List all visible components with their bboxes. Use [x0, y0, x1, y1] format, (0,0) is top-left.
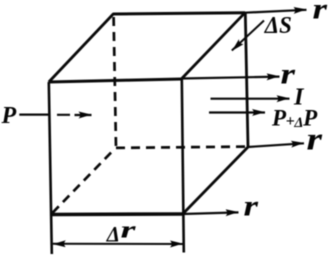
- arrow P+dP: [209, 111, 265, 113]
- arrow r3 from back bottom right corner: [248, 143, 304, 147]
- svg-text:ΔS: ΔS: [264, 12, 292, 39]
- wire: hidden back left edge BTL-BBL (dashed): [114, 17, 116, 148]
- svg-text:r: r: [244, 190, 259, 223]
- wire: back right edge BTR-BBR: [245, 13, 248, 147]
- wire: top-right receding edge BTR-FTR: [182, 13, 245, 79]
- wire: front right edge FTR-FBR with extension line: [182, 79, 184, 253]
- arrow I: [211, 98, 290, 100]
- svg-text:P: P: [1, 103, 17, 129]
- dimension arrow dr (double headed): [53, 243, 183, 245]
- wire: top back edge BTL-BTR: [113, 13, 245, 14]
- wire: front left edge FTL-FBL with extension line: [49, 82, 52, 254]
- arrow r1 from back top right corner: [245, 10, 307, 13]
- arrow P (dashed): [19, 113, 70, 115]
- wire: bottom-right receding edge FBR-BBR: [183, 147, 248, 214]
- arrow dS pointing at right face: [232, 21, 264, 51]
- wire: hidden bottom-left receding edge FBL-BBL (dashed): [53, 149, 115, 213]
- arrow r4 from front bottom right corner: [183, 212, 239, 214]
- svg-text:r: r: [121, 218, 137, 244]
- svg-text:r: r: [313, 0, 328, 26]
- wire: hidden back bottom edge BBL-BBR (dashed): [116, 147, 247, 148]
- wire: front bottom edge FBL-FBR: [52, 212, 183, 216]
- wire: front top edge FTL-FTR: [49, 79, 182, 82]
- wire: top-left receding edge BTL-FTL: [49, 14, 114, 82]
- arrow r2 from front top right corner: [182, 77, 280, 79]
- svg-text:Δ: Δ: [106, 222, 120, 247]
